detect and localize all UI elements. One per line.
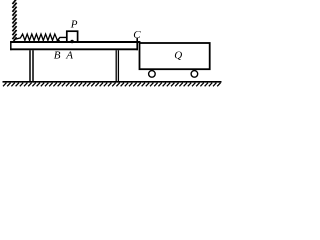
table right leg (double line) bbox=[115, 50, 117, 81]
cart wheel left bbox=[149, 71, 156, 78]
node A dot (under block) bbox=[70, 40, 73, 43]
table top slab (lower line) bbox=[10, 48, 138, 50]
cart wheel right bbox=[191, 71, 198, 78]
ground line bbox=[3, 81, 222, 83]
block P bbox=[67, 31, 78, 42]
table left end cap bbox=[10, 41, 12, 50]
node C tick / table right end cap bbox=[136, 38, 138, 50]
table top surface (upper line) bbox=[10, 41, 140, 43]
spring (wall to block P) bbox=[15, 34, 57, 40]
wall (hatched) bbox=[12, 0, 16, 41]
svg-text:B: B bbox=[54, 49, 61, 61]
cart Q body bbox=[140, 43, 210, 69]
svg-text:A: A bbox=[65, 49, 73, 61]
node B dot (spring end on table) bbox=[57, 40, 60, 43]
spring-to-block connector rod bbox=[57, 37, 67, 40]
ground hatching bbox=[3, 83, 221, 87]
table left leg (double line) bbox=[29, 50, 31, 81]
svg-text:C: C bbox=[133, 29, 141, 41]
svg-text:Q: Q bbox=[174, 50, 182, 62]
svg-text:P: P bbox=[70, 18, 78, 30]
